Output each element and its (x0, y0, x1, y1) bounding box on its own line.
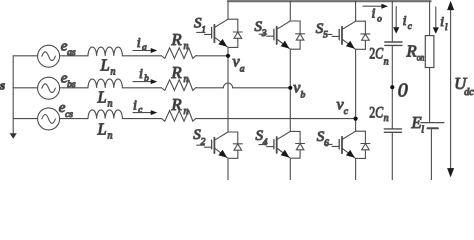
wire switch S3 to phase node (289, 49, 291, 131)
svg-text:s: s (0, 78, 5, 93)
switch S5 (IGBT with antiparallel diode) (324, 21, 370, 49)
wire phase c resistor to node v_c (196, 118, 356, 120)
inductor L_n phase b (88, 79, 122, 88)
svg-text:c: c (408, 21, 412, 31)
wire rail to capacitor 2C_n (upper) (391, 1, 393, 42)
wire inductor to resistor phase a (122, 55, 161, 57)
AC source e_as (38, 45, 60, 67)
svg-text:l: l (421, 124, 424, 135)
svg-text:as: as (67, 48, 76, 58)
current arrow i_c (393, 7, 399, 34)
voltage arrow U_dc (double-headed) (447, 1, 454, 178)
wire inductor to resistor phase c (122, 118, 161, 120)
switch S4 (IGBT with antiparallel diode) (259, 131, 305, 158)
capacitor 2C_n (upper) (385, 42, 402, 45)
switch S3 (IGBT with antiparallel diode) (259, 21, 305, 49)
svg-text:n: n (184, 41, 189, 52)
resistor R_on (box) (425, 36, 434, 68)
svg-text:l: l (445, 23, 448, 33)
svg-text:n: n (108, 131, 113, 142)
svg-text:a: a (142, 42, 147, 52)
wire R_on to battery E_l (429, 68, 431, 123)
svg-text:n: n (108, 99, 113, 110)
svg-text:R: R (171, 95, 182, 114)
svg-text:b: b (301, 90, 306, 100)
current arrow i_c (133, 110, 157, 115)
svg-text:c: c (138, 105, 142, 115)
current arrow i_a (133, 48, 157, 53)
ground (10, 133, 17, 139)
svg-text:i: i (372, 7, 376, 22)
wire switch S2 to negative rail (227, 158, 229, 180)
svg-text:n: n (111, 67, 116, 78)
svg-text:c: c (344, 107, 349, 117)
positive DC rail (228, 0, 431, 2)
wire upper capacitor to node 0 (391, 45, 393, 128)
svg-text:dc: dc (464, 87, 474, 98)
wire switch S6 to negative rail (355, 158, 357, 180)
switch S1 (IGBT with antiparallel diode) (197, 19, 243, 47)
wire rail to switch S3 (289, 1, 291, 21)
svg-text:o: o (377, 13, 382, 23)
wire bus to source e_as (13, 55, 37, 57)
svg-text:R: R (171, 63, 182, 82)
svg-text:3: 3 (261, 29, 267, 39)
svg-text:b: b (144, 73, 149, 83)
svg-text:2C: 2C (369, 46, 383, 63)
svg-text:6: 6 (324, 139, 329, 149)
inductor L_n phase a (88, 47, 122, 56)
wire rail to switch S5 (355, 1, 357, 21)
resistor R_n phase c (162, 111, 197, 122)
wire battery to negative rail (430, 128, 432, 180)
svg-text:L: L (97, 120, 107, 139)
wire lower capacitor to negative rail (391, 132, 393, 180)
switch S2 (IGBT with antiparallel diode) (197, 132, 243, 158)
wire inductor to resistor phase b (122, 87, 161, 89)
svg-text:5: 5 (323, 31, 328, 41)
current arrow i_l (433, 7, 439, 34)
svg-text:L: L (97, 87, 107, 106)
wire switch S4 to negative rail (289, 158, 291, 180)
wire rail to resistor R_on (429, 1, 431, 35)
resistor R_n phase a (162, 48, 197, 59)
wire rail to switch S1 (227, 1, 229, 19)
svg-text:1: 1 (201, 26, 206, 36)
svg-text:n: n (384, 113, 389, 124)
AC source e_cs (38, 108, 60, 130)
wire source to inductor L_n phase c (60, 118, 88, 120)
node s (source neutral bus) (12, 56, 14, 134)
capacitor 2C_n (lower) (384, 129, 401, 132)
node 0 (DC midpoint) (390, 85, 394, 89)
svg-text:i: i (133, 99, 137, 114)
wire bus to source e_cs (13, 118, 37, 120)
inductor L_n phase c (88, 110, 122, 119)
svg-text:i: i (139, 67, 143, 82)
svg-text:a: a (240, 64, 245, 74)
node v_c (354, 117, 358, 121)
node v_a (226, 54, 230, 58)
current arrow i_b (133, 79, 157, 84)
svg-text:n: n (184, 106, 189, 117)
wire source to inductor L_n phase a (60, 55, 88, 57)
wire switch S1 to phase node (227, 47, 229, 132)
node v_b (288, 86, 292, 90)
current arrow i_o (363, 4, 388, 9)
svg-text:i: i (137, 36, 141, 51)
AC source e_bs (38, 77, 60, 99)
svg-text:2C: 2C (369, 105, 383, 122)
svg-text:0: 0 (398, 80, 408, 102)
battery E_l (421, 123, 444, 129)
svg-text:R: R (406, 42, 417, 61)
svg-text:i: i (403, 14, 407, 29)
wire bus to source e_bs (13, 87, 37, 89)
svg-text:bs: bs (67, 80, 76, 90)
svg-text:2: 2 (201, 137, 206, 147)
resistor R_n phase b (162, 80, 197, 91)
svg-text:i: i (440, 15, 444, 30)
svg-text:n: n (184, 74, 189, 85)
wire switch S5 to phase node (355, 49, 357, 131)
svg-text:R: R (171, 30, 182, 49)
svg-text:E: E (411, 113, 422, 132)
svg-text:L: L (100, 55, 110, 74)
svg-text:n: n (384, 57, 389, 68)
wire phase b resistor to node v_b (hop over leg 1) (196, 83, 290, 88)
svg-text:on: on (417, 53, 425, 63)
wire phase a resistor to node v_a (196, 55, 228, 57)
wire source to inductor L_n phase b (60, 87, 88, 89)
switch S6 (IGBT with antiparallel diode) (324, 131, 370, 158)
svg-text:4: 4 (263, 138, 268, 148)
